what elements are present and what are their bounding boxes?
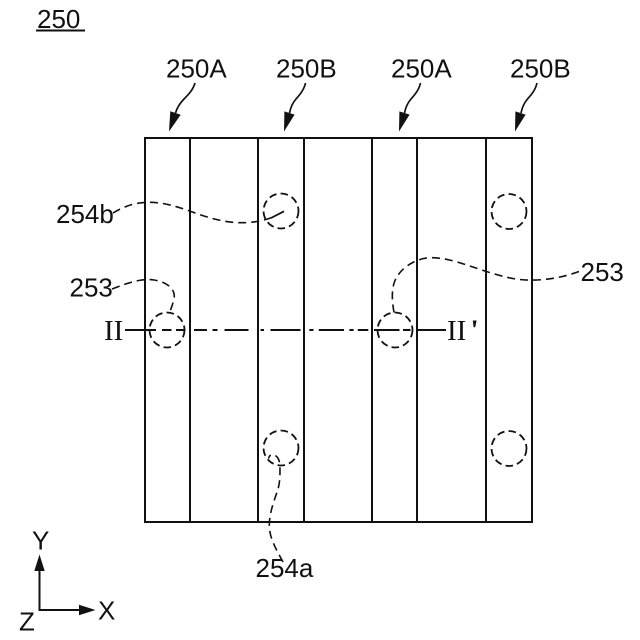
svg-text:250A: 250A (391, 54, 452, 84)
svg-text:Y: Y (32, 526, 49, 556)
svg-text:250B: 250B (510, 54, 571, 84)
svg-text:250A: 250A (166, 54, 227, 84)
svg-text:Z: Z (19, 607, 35, 637)
svg-text:X: X (98, 596, 115, 626)
svg-text:II: II (104, 315, 123, 347)
svg-text:254a: 254a (256, 553, 314, 583)
svg-text:II: II (447, 315, 466, 347)
svg-text:250B: 250B (276, 54, 337, 84)
svg-text:253: 253 (581, 257, 624, 287)
svg-text:253: 253 (70, 273, 113, 303)
svg-text:254b: 254b (56, 199, 114, 229)
